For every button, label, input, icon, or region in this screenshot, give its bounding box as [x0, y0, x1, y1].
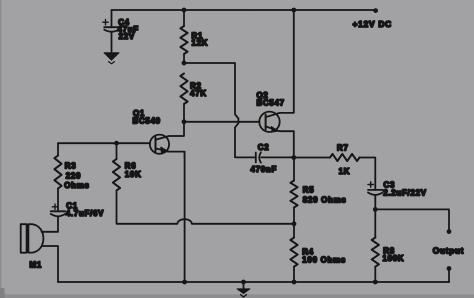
wire ground rail: [58, 281, 449, 283]
wire Q1 emitter to ground rail: [184, 152, 186, 282]
svg-text:Output: Output: [433, 246, 464, 255]
bottom edge shading: [0, 294, 474, 298]
node R1-R2 junction: [182, 61, 187, 66]
node +12V terminal dot: [373, 8, 378, 13]
wire R4 bottom lead: [293, 267, 295, 282]
node rail-Q2 collector junction: [291, 8, 296, 13]
node output + terminal dot: [447, 229, 452, 234]
wire R1/R2 junction to C2 (hops base wire): [184, 63, 256, 157]
resistor R2: [180, 74, 206, 105]
svg-text:R5: R5: [303, 186, 315, 195]
svg-text:Ohms: Ohms: [64, 181, 89, 190]
node emitter-rail junction: [182, 280, 187, 285]
wire +12V rail: [112, 9, 376, 11]
svg-text:47K: 47K: [190, 89, 207, 98]
svg-text:BC549: BC549: [133, 116, 161, 125]
left edge shading: [0, 0, 2, 298]
resistor R8: [372, 238, 405, 267]
resistor R6: [113, 159, 142, 191]
node R4-rail junction: [292, 280, 297, 285]
capacitor C2: [251, 143, 294, 174]
wire R5 top lead: [293, 158, 295, 181]
node ground-branch junction: [241, 280, 246, 285]
wire to output + terminal: [375, 209, 449, 231]
wire R1 bottom lead: [183, 54, 185, 63]
svg-text:100 Ohms: 100 Ohms: [302, 255, 346, 264]
wire R8 top lead: [374, 209, 376, 237]
wire C3 bottom lead: [374, 196, 376, 210]
svg-text:22V: 22V: [119, 32, 135, 41]
node Q1 collector junction: [182, 119, 187, 124]
resistor R5: [290, 181, 346, 208]
wire R2 bottom lead: [183, 104, 185, 122]
resistor R1: [180, 26, 208, 54]
resistor R3: [54, 156, 89, 190]
svg-text:470nF: 470nF: [251, 165, 278, 174]
wire Q1 collector to Q2 base: [184, 121, 259, 123]
wire C4 top lead: [111, 10, 113, 27]
svg-text:220: 220: [66, 171, 81, 180]
wire C1 to M1 top terminal: [42, 217, 59, 232]
svg-text:BC547: BC547: [257, 98, 285, 107]
wire R5 bottom lead: [293, 208, 295, 224]
node C3 / R8 / output junction: [373, 207, 378, 212]
wire output - terminal to rail: [448, 269, 450, 283]
wire R1 top lead: [183, 10, 185, 26]
svg-text:1K: 1K: [339, 167, 351, 176]
svg-text:10K: 10K: [125, 170, 142, 179]
ground symbol bottom: [237, 282, 250, 297]
resistor R4: [290, 238, 346, 267]
label +12V DC: [353, 19, 392, 29]
microphone M1: [21, 224, 44, 269]
svg-text:R6: R6: [125, 161, 137, 170]
svg-text:R7: R7: [337, 143, 349, 152]
wire R6 top lead: [116, 143, 118, 159]
svg-text:820 Ohms: 820 Ohms: [303, 195, 347, 204]
wire base to R3 corner: [57, 143, 59, 155]
wire R3 to C1: [57, 189, 59, 212]
wire M1 bottom terminal to rail: [42, 246, 58, 282]
wire R8 bottom lead: [374, 267, 376, 282]
transistor Q2 BC547: [257, 10, 294, 158]
svg-text:M1: M1: [30, 261, 42, 270]
svg-text:2.2uF/22V: 2.2uF/22V: [383, 188, 427, 197]
capacitor C4: [103, 18, 139, 41]
node R8-rail junction: [373, 280, 378, 285]
wire C4 bottom lead: [111, 33, 113, 53]
wire Q1 base wire: [58, 142, 150, 144]
svg-text:C2: C2: [258, 143, 270, 152]
wire R4 top lead: [293, 224, 295, 238]
label Output: [433, 246, 464, 255]
node R6 top junction: [114, 141, 119, 146]
svg-text:12K: 12K: [192, 38, 209, 47]
svg-text:4.7uF/6V: 4.7uF/6V: [66, 209, 104, 218]
node rail-R1 junction: [182, 8, 187, 13]
transistor Q1 BC549: [133, 109, 185, 158]
svg-text:100K: 100K: [383, 254, 405, 263]
capacitor C1: [51, 201, 104, 217]
bottom-left corner blob: [0, 288, 5, 298]
node Q2 emitter / C2 / R7 / R5 junction: [291, 155, 296, 160]
svg-text:R3: R3: [65, 161, 77, 170]
node output - terminal dot: [447, 266, 452, 271]
svg-text:+12V DC: +12V DC: [353, 19, 392, 29]
capacitor C3: [368, 180, 427, 197]
wire R7 left lead: [294, 157, 330, 159]
resistor R7: [330, 143, 360, 176]
node R5-R4 junction: [292, 221, 297, 226]
wire R6 bottom to R5/R4 node (hops emitter wire): [117, 191, 295, 224]
wire R7 right lead to C3: [360, 158, 376, 190]
ground below C4: [104, 53, 119, 64]
